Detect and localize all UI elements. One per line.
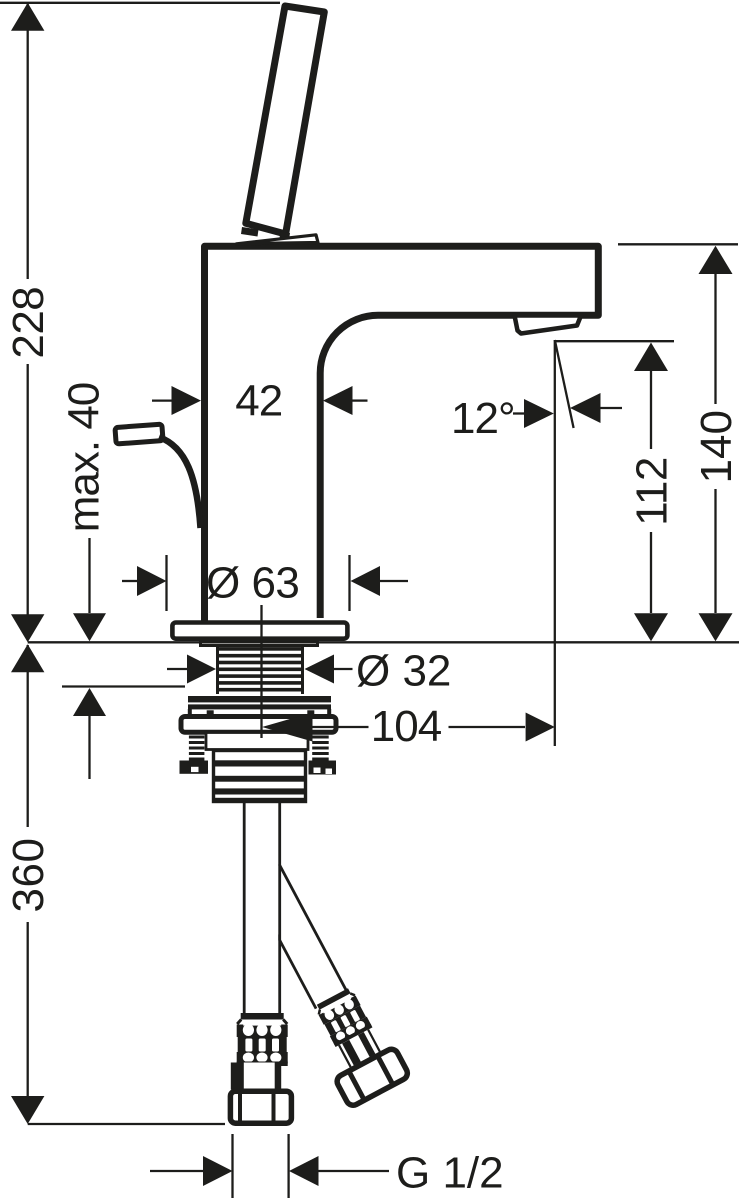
shank center piece xyxy=(206,733,308,750)
arrow down 112 xyxy=(634,613,668,641)
handle lever xyxy=(246,6,324,234)
arrow right D32 xyxy=(187,655,216,684)
arrow down max40 xyxy=(73,613,106,641)
arrow up 140 xyxy=(699,246,733,274)
straight neck xyxy=(231,1063,281,1090)
arrow right 12deg xyxy=(524,399,554,428)
svg-text:104: 104 xyxy=(371,702,442,751)
svg-text:112: 112 xyxy=(628,457,677,526)
arrow right D63 xyxy=(137,566,167,596)
handle foot left xyxy=(241,227,259,237)
horseshoe washer left xyxy=(180,761,209,774)
arrow right 42 xyxy=(172,386,202,415)
extension line outlet level xyxy=(555,340,674,342)
arrow left D63 xyxy=(351,566,381,596)
connector block xyxy=(214,751,306,802)
svg-text:G 1/2: G 1/2 xyxy=(396,1149,504,1198)
arrow down 228 xyxy=(11,614,44,642)
angled hex nut xyxy=(335,1047,410,1108)
body and spout outline xyxy=(205,246,599,623)
svg-text:360: 360 xyxy=(4,838,53,913)
svg-text:12°: 12° xyxy=(451,394,515,443)
angled neck xyxy=(339,1030,380,1068)
hose interior mask xyxy=(246,802,279,1014)
aerator xyxy=(515,316,582,334)
arrow right 104 xyxy=(526,713,555,742)
12 deg slanted stream line xyxy=(555,340,574,428)
arrow left 12deg xyxy=(570,393,601,423)
svg-text:42: 42 xyxy=(235,377,282,426)
arrow up 360 xyxy=(11,644,44,672)
straight hex nut xyxy=(230,1091,291,1123)
side lever arm xyxy=(159,437,201,528)
dim line 228 upper segment xyxy=(27,3,29,279)
svg-text:Ø 63: Ø 63 xyxy=(206,559,299,608)
straight hose walls xyxy=(243,802,246,1014)
arrow down 140 xyxy=(699,613,733,641)
arrow up 112 xyxy=(634,343,668,372)
handle joint wedge xyxy=(237,235,319,244)
arrow right G12 xyxy=(203,1156,233,1186)
tail below xyxy=(88,716,90,779)
right stud threads xyxy=(312,736,329,761)
horseshoe washer right xyxy=(309,761,337,775)
svg-text:Ø 32: Ø 32 xyxy=(356,647,451,696)
extension line spout top level xyxy=(618,243,738,245)
handle foot right xyxy=(280,232,291,240)
lower reference line xyxy=(62,685,185,687)
washer bands xyxy=(188,696,331,702)
svg-text:max. 40: max. 40 xyxy=(60,383,109,533)
dim line 228 lower segment xyxy=(27,364,29,640)
extension line top xyxy=(0,2,280,4)
angled crimp sleeve xyxy=(314,987,373,1047)
arrow down 360 xyxy=(11,1096,44,1124)
extension line at hose end xyxy=(28,1123,225,1125)
base plate lip xyxy=(201,640,318,646)
arrow up max40 xyxy=(73,688,106,716)
arrow left-long 104 at centerline xyxy=(262,713,313,742)
mounting nut xyxy=(181,717,336,733)
left stud threads xyxy=(189,736,205,761)
side lever knob xyxy=(115,424,163,444)
svg-text:228: 228 xyxy=(4,287,53,359)
nut facets xyxy=(238,1091,242,1123)
threaded shank xyxy=(216,647,219,695)
nut facets xyxy=(348,1070,364,1101)
svg-text:140: 140 xyxy=(692,410,739,483)
arrow up 228 xyxy=(11,3,44,31)
dim line upper xyxy=(88,538,90,613)
arrow left D32 xyxy=(305,655,335,684)
straight crimp sleeve xyxy=(237,1013,288,1066)
angled hose walls xyxy=(248,881,316,1009)
base plate xyxy=(172,623,347,639)
arrow left G12 xyxy=(289,1156,319,1186)
arrow left 42 xyxy=(323,386,353,415)
